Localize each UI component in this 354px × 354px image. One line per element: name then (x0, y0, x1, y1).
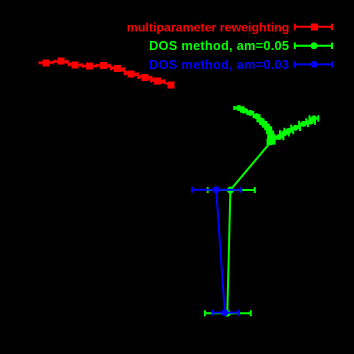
red series line (46, 61, 171, 85)
green transition line (239, 108, 314, 142)
blue line between endpoints (216, 190, 225, 313)
svg-text:DOS method, am=0.03: DOS method, am=0.03 (149, 57, 289, 72)
blue endpoint error bar (mid) (192, 187, 241, 193)
green series error bars (descending branch) (234, 106, 274, 139)
blue endpoint error bar (bottom) (213, 310, 239, 316)
green endpoint error bar (mid) (208, 187, 255, 193)
red series: multiparameter reweighting error bars (40, 60, 165, 83)
red series square markers (43, 58, 175, 89)
svg-text:multiparameter reweighting: multiparameter reweighting (127, 21, 290, 35)
legend sample blue (295, 61, 332, 68)
legend sample green (295, 42, 332, 49)
svg-text:DOS method, am=0.05: DOS method, am=0.05 (149, 38, 289, 53)
green endpoint error bar (bottom) (205, 310, 251, 316)
green circle markers (224, 105, 317, 317)
green line to lower endpoint (227, 142, 271, 314)
legend sample red (295, 23, 332, 30)
green series error bars (ascending branch) (268, 115, 319, 145)
blue circle markers (213, 186, 229, 316)
